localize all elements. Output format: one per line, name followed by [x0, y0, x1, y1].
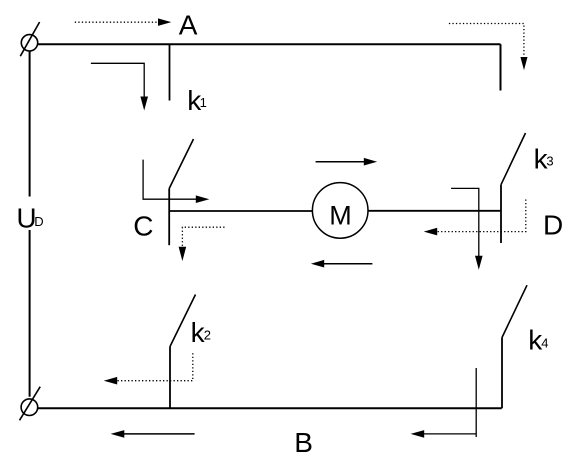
svg-text:M: M	[329, 200, 352, 230]
wire C to motor	[169, 210, 312, 212]
wire top bus A	[38, 43, 501, 45]
label k3	[534, 144, 554, 175]
arrow above motor (rightward)	[316, 158, 378, 166]
motor M	[312, 183, 368, 239]
svg-text:3: 3	[546, 153, 553, 168]
terminal circle top (source + terminal)	[20, 22, 39, 56]
svg-text:4: 4	[541, 336, 548, 351]
solid elbow arrow at node C (rightward annotation)	[143, 160, 209, 203]
solid elbow arrow at node D (down annotation)	[451, 188, 483, 269]
label k4	[528, 324, 548, 355]
wire left vertical lower	[29, 230, 31, 397]
wire left vertical upper	[29, 51, 31, 196]
svg-text:A: A	[179, 9, 198, 40]
svg-text:1: 1	[200, 95, 207, 110]
switch k4	[502, 285, 527, 408]
svg-text:B: B	[294, 427, 313, 458]
dotted arrow at A (current direction, rightward)	[75, 18, 172, 26]
solid elbow arrow near k1 (down current annotation)	[91, 63, 148, 110]
arrow below motor (leftward)	[311, 260, 373, 268]
dotted arrow top-right (current direction, right then down)	[449, 24, 528, 71]
svg-text:C: C	[133, 211, 153, 242]
svg-text:D: D	[543, 209, 563, 240]
terminal circle bottom (source - terminal)	[20, 387, 41, 421]
svg-text:2: 2	[204, 327, 211, 342]
switch k2	[170, 295, 196, 409]
dotted arrow at k2 (down then left)	[104, 353, 193, 384]
label k1	[187, 85, 207, 116]
solid elbow arrow at k4 (down then left)	[411, 368, 477, 438]
switch k1	[169, 44, 193, 245]
wire top-right corner drop	[500, 44, 502, 90]
label k2	[191, 317, 211, 348]
label UD	[16, 203, 43, 234]
dotted arrow at C (left then down)	[179, 227, 225, 261]
switch k3	[501, 133, 526, 243]
solid arrow bottom-left (leftward)	[111, 430, 195, 438]
dotted arrow at D (down then left)	[424, 200, 526, 236]
wire motor to D	[368, 210, 501, 212]
wire bottom bus B	[38, 407, 502, 409]
svg-text:D: D	[34, 214, 43, 229]
